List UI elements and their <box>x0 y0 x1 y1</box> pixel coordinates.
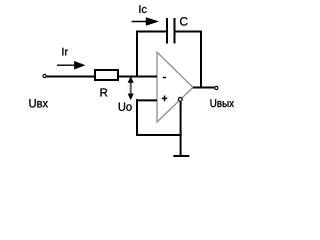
label Ir <box>62 48 68 56</box>
capacitor C right plate <box>174 18 176 44</box>
wire feedback top left <box>136 31 167 33</box>
label Uo <box>119 103 132 111</box>
wire plus input stub <box>138 99 157 101</box>
op-amp minus input label <box>163 77 166 79</box>
ground <box>173 155 189 157</box>
current arrow Ic <box>132 21 149 23</box>
op-amp plus input label <box>162 97 167 99</box>
label Uвых <box>211 99 234 107</box>
resistor R <box>95 70 118 80</box>
wire feedback vertical right <box>200 32 202 89</box>
capacitor C left plate <box>166 18 168 44</box>
output terminal Uвых node <box>215 86 218 89</box>
node circle on op-amp body <box>178 98 182 102</box>
label Uвх <box>29 99 48 107</box>
wire input to resistor <box>47 76 95 78</box>
input terminal Uвх node <box>43 74 46 77</box>
label C <box>180 17 188 26</box>
current arrow Ir <box>57 64 77 66</box>
wire output <box>193 87 214 89</box>
op-amp U1 <box>157 52 193 122</box>
wire plus loop bottom <box>136 134 182 136</box>
label Ic <box>139 5 146 13</box>
label R <box>101 88 108 96</box>
wire feedback vertical left <box>136 31 138 77</box>
wire feedback top right <box>176 31 203 33</box>
wire plus loop vertical <box>136 99 138 136</box>
voltage arrow Uo (double headed) <box>130 81 132 96</box>
wire to ground <box>180 102 182 156</box>
wire resistor to op-amp inverting input <box>119 76 157 78</box>
